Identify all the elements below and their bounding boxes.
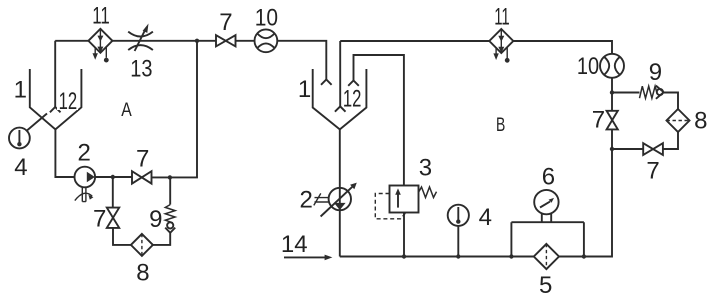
- shutoff valve 7 left vertical bowtie: [107, 208, 119, 228]
- gauge 6 circle: [534, 190, 558, 214]
- label 7 left vertical: [93, 206, 106, 233]
- svg-text:7: 7: [219, 9, 232, 36]
- label 5: [539, 272, 552, 299]
- check valve 9 left seat and ball: [165, 222, 175, 233]
- relief valve 3 spring: [419, 187, 437, 198]
- wire relief valve to bottom line: [403, 213, 405, 257]
- check valve 9 right ball and seat: [656, 86, 664, 99]
- label 12 left white halo: [57, 90, 78, 110]
- wire thermometer stem: [457, 226, 459, 257]
- shutoff valve 7 top bowtie: [216, 35, 236, 46]
- svg-text:6: 6: [542, 164, 555, 191]
- wire filter 8 down to valve 7: [663, 132, 678, 149]
- label 4 middle: [479, 204, 492, 231]
- svg-text:5: 5: [539, 272, 552, 299]
- svg-text:1: 1: [298, 76, 311, 103]
- junction gauge box right: [582, 254, 586, 258]
- shutoff valve 7 bottom-left bowtie: [132, 171, 152, 183]
- discharge end pipe 2: [335, 106, 346, 111]
- filter 5 diamond: [534, 244, 559, 269]
- svg-text:8: 8: [136, 259, 149, 286]
- label 9 right: [649, 59, 662, 86]
- label 12 left: [59, 88, 78, 115]
- label 2 left: [78, 139, 91, 166]
- junction gauge box left: [509, 254, 513, 258]
- relief valve 3 pilot dashed: [375, 194, 405, 219]
- svg-text:10: 10: [577, 53, 599, 80]
- wire top line right segment from pipe2 to filter 11 right: [340, 40, 489, 42]
- filter F11 left drain arrow: [93, 48, 98, 60]
- label 8 left: [136, 259, 149, 286]
- label 7 right horizontal: [646, 157, 659, 184]
- svg-text:10: 10: [255, 5, 278, 32]
- wire flow meter to middle funnel pipe 1: [277, 41, 326, 80]
- shutoff valve 7 right vertical bowtie: [607, 111, 618, 130]
- thermometer 4 left probe: [27, 114, 47, 131]
- label 11 right: [494, 3, 510, 30]
- pump 2 middle circle: [329, 188, 351, 210]
- funnel 1 right wall A: [55, 69, 81, 129]
- label 14: [281, 231, 308, 258]
- wire flow meter to junction: [611, 78, 613, 111]
- check valve 9 right spring: [640, 86, 658, 98]
- label 7 right vertical: [592, 107, 605, 134]
- wire valve to riser corner: [152, 41, 198, 178]
- wire valve down to filter 8: [113, 228, 131, 245]
- svg-text:2: 2: [300, 186, 313, 213]
- svg-text:4: 4: [479, 204, 492, 231]
- label B: [496, 115, 505, 136]
- wire filter 11 right to corner and down to flow meter: [513, 41, 612, 54]
- label 10 left: [255, 5, 278, 32]
- label 1 middle: [298, 76, 311, 103]
- funnel 1 left wall A: [30, 69, 56, 129]
- svg-text:4: 4: [14, 154, 27, 181]
- svg-text:B: B: [496, 115, 505, 136]
- svg-text:1: 1: [14, 77, 27, 104]
- wire valve 7 to flow meter 10: [236, 40, 255, 42]
- label A: [121, 100, 132, 121]
- discharge end pipe 3: [348, 81, 359, 86]
- relief valve 3 body: [390, 186, 419, 213]
- check valve 9 left spring: [165, 205, 175, 223]
- svg-text:7: 7: [136, 146, 149, 173]
- junction right lower: [610, 147, 614, 151]
- pump 2 middle control: [314, 193, 329, 205]
- funnel 1 middle right wall: [340, 69, 367, 129]
- thermometer 4 left circle: [9, 128, 30, 149]
- svg-text:14: 14: [281, 231, 308, 258]
- wire funnel middle drain through pump: [339, 129, 341, 256]
- svg-text:A: A: [121, 100, 132, 121]
- filter F11 left diamond: [88, 29, 112, 53]
- pump 2 left circle: [75, 167, 96, 188]
- throttle valve 13 arcs: [128, 32, 153, 50]
- funnel 1 middle left wall: [313, 69, 340, 129]
- wire bottom main line: [340, 256, 534, 258]
- label 7 top: [219, 9, 232, 36]
- label 6: [542, 164, 555, 191]
- junction relief valve bottom: [402, 254, 406, 258]
- label 10 right: [577, 53, 599, 80]
- pump 2 left shaft: [82, 187, 86, 201]
- svg-text:9: 9: [649, 59, 662, 86]
- wire pipe into left funnel: [54, 41, 56, 107]
- svg-text:7: 7: [93, 206, 106, 233]
- filter F11 right inner arrows: [498, 29, 504, 53]
- wire junction down to valve 7 vertical: [112, 177, 114, 208]
- relief valve 3 arrow: [395, 188, 401, 207]
- label 2 middle: [300, 186, 313, 213]
- filter 8 left diamond: [131, 234, 153, 256]
- filter F11 right drain arrow: [493, 48, 498, 60]
- label 4 left: [14, 154, 27, 181]
- svg-text:13: 13: [130, 56, 152, 83]
- wire valve to junction: [611, 129, 613, 149]
- arrow 14 inlet: [284, 255, 332, 261]
- svg-text:8: 8: [694, 107, 707, 134]
- label 13: [130, 56, 152, 83]
- junction pump outlet: [111, 175, 115, 179]
- svg-text:12: 12: [59, 88, 78, 115]
- discharge end left funnel pipe: [50, 107, 61, 112]
- shutoff valve 7 right horizontal bowtie: [643, 143, 663, 155]
- filter F11 right diamond: [489, 29, 513, 53]
- throttle valve 13 arrow: [135, 24, 149, 52]
- svg-text:7: 7: [646, 157, 659, 184]
- label 8 right: [694, 107, 707, 134]
- pump 2 middle variable arrow: [321, 183, 357, 217]
- discharge end pipe 1: [321, 80, 332, 85]
- label 12 middle: [343, 86, 362, 113]
- label 1 left: [14, 77, 27, 104]
- svg-text:7: 7: [592, 107, 605, 134]
- label 9 left: [149, 206, 162, 233]
- wire pump 2 to junction: [95, 176, 132, 178]
- wire filter 8 to check valve 9 riser: [153, 233, 170, 245]
- gauge 6 bar: [511, 222, 584, 256]
- wire top-left horizontal into filter 11: [55, 40, 88, 42]
- wire valve to riser: [612, 148, 643, 150]
- junction valve-9 branch: [168, 175, 172, 179]
- flow meter 10 right: [600, 54, 624, 78]
- svg-text:12: 12: [343, 86, 362, 113]
- wire check valve to filter 8 right: [664, 93, 678, 110]
- filter F11 right drain dot: [505, 47, 510, 63]
- junction thermometer bottom: [456, 254, 460, 258]
- thermometer 4 middle: [448, 205, 469, 226]
- wire spring to junction: [169, 177, 171, 204]
- label 3: [419, 154, 432, 181]
- gauge 6 stem: [542, 213, 551, 222]
- svg-text:11: 11: [494, 3, 510, 30]
- wire filter 5 to right riser: [559, 149, 612, 257]
- wire junction to check valve 9 right: [612, 92, 640, 94]
- wire relief return line into funnel pipe 3: [354, 55, 404, 186]
- wire pipe 2 into middle funnel: [339, 41, 341, 106]
- filter F11 left inner arrows: [97, 29, 103, 53]
- svg-text:3: 3: [419, 154, 432, 181]
- svg-text:11: 11: [92, 2, 110, 29]
- svg-text:2: 2: [78, 139, 91, 166]
- label 11 left: [92, 2, 110, 29]
- svg-text:9: 9: [149, 206, 162, 233]
- label 7 bottom-left: [136, 146, 149, 173]
- junction top-left riser: [195, 39, 199, 43]
- junction right top: [610, 90, 614, 94]
- wire from filter 11 through valve 13 to valve 7: [112, 40, 216, 42]
- wire funnel A drain to pump 2: [55, 129, 74, 177]
- pump 2 left rotation arrow: [75, 193, 94, 200]
- filter F11 left drain dot: [104, 47, 109, 63]
- flow meter 10 left: [255, 29, 278, 52]
- filter 8 right diamond: [667, 109, 690, 132]
